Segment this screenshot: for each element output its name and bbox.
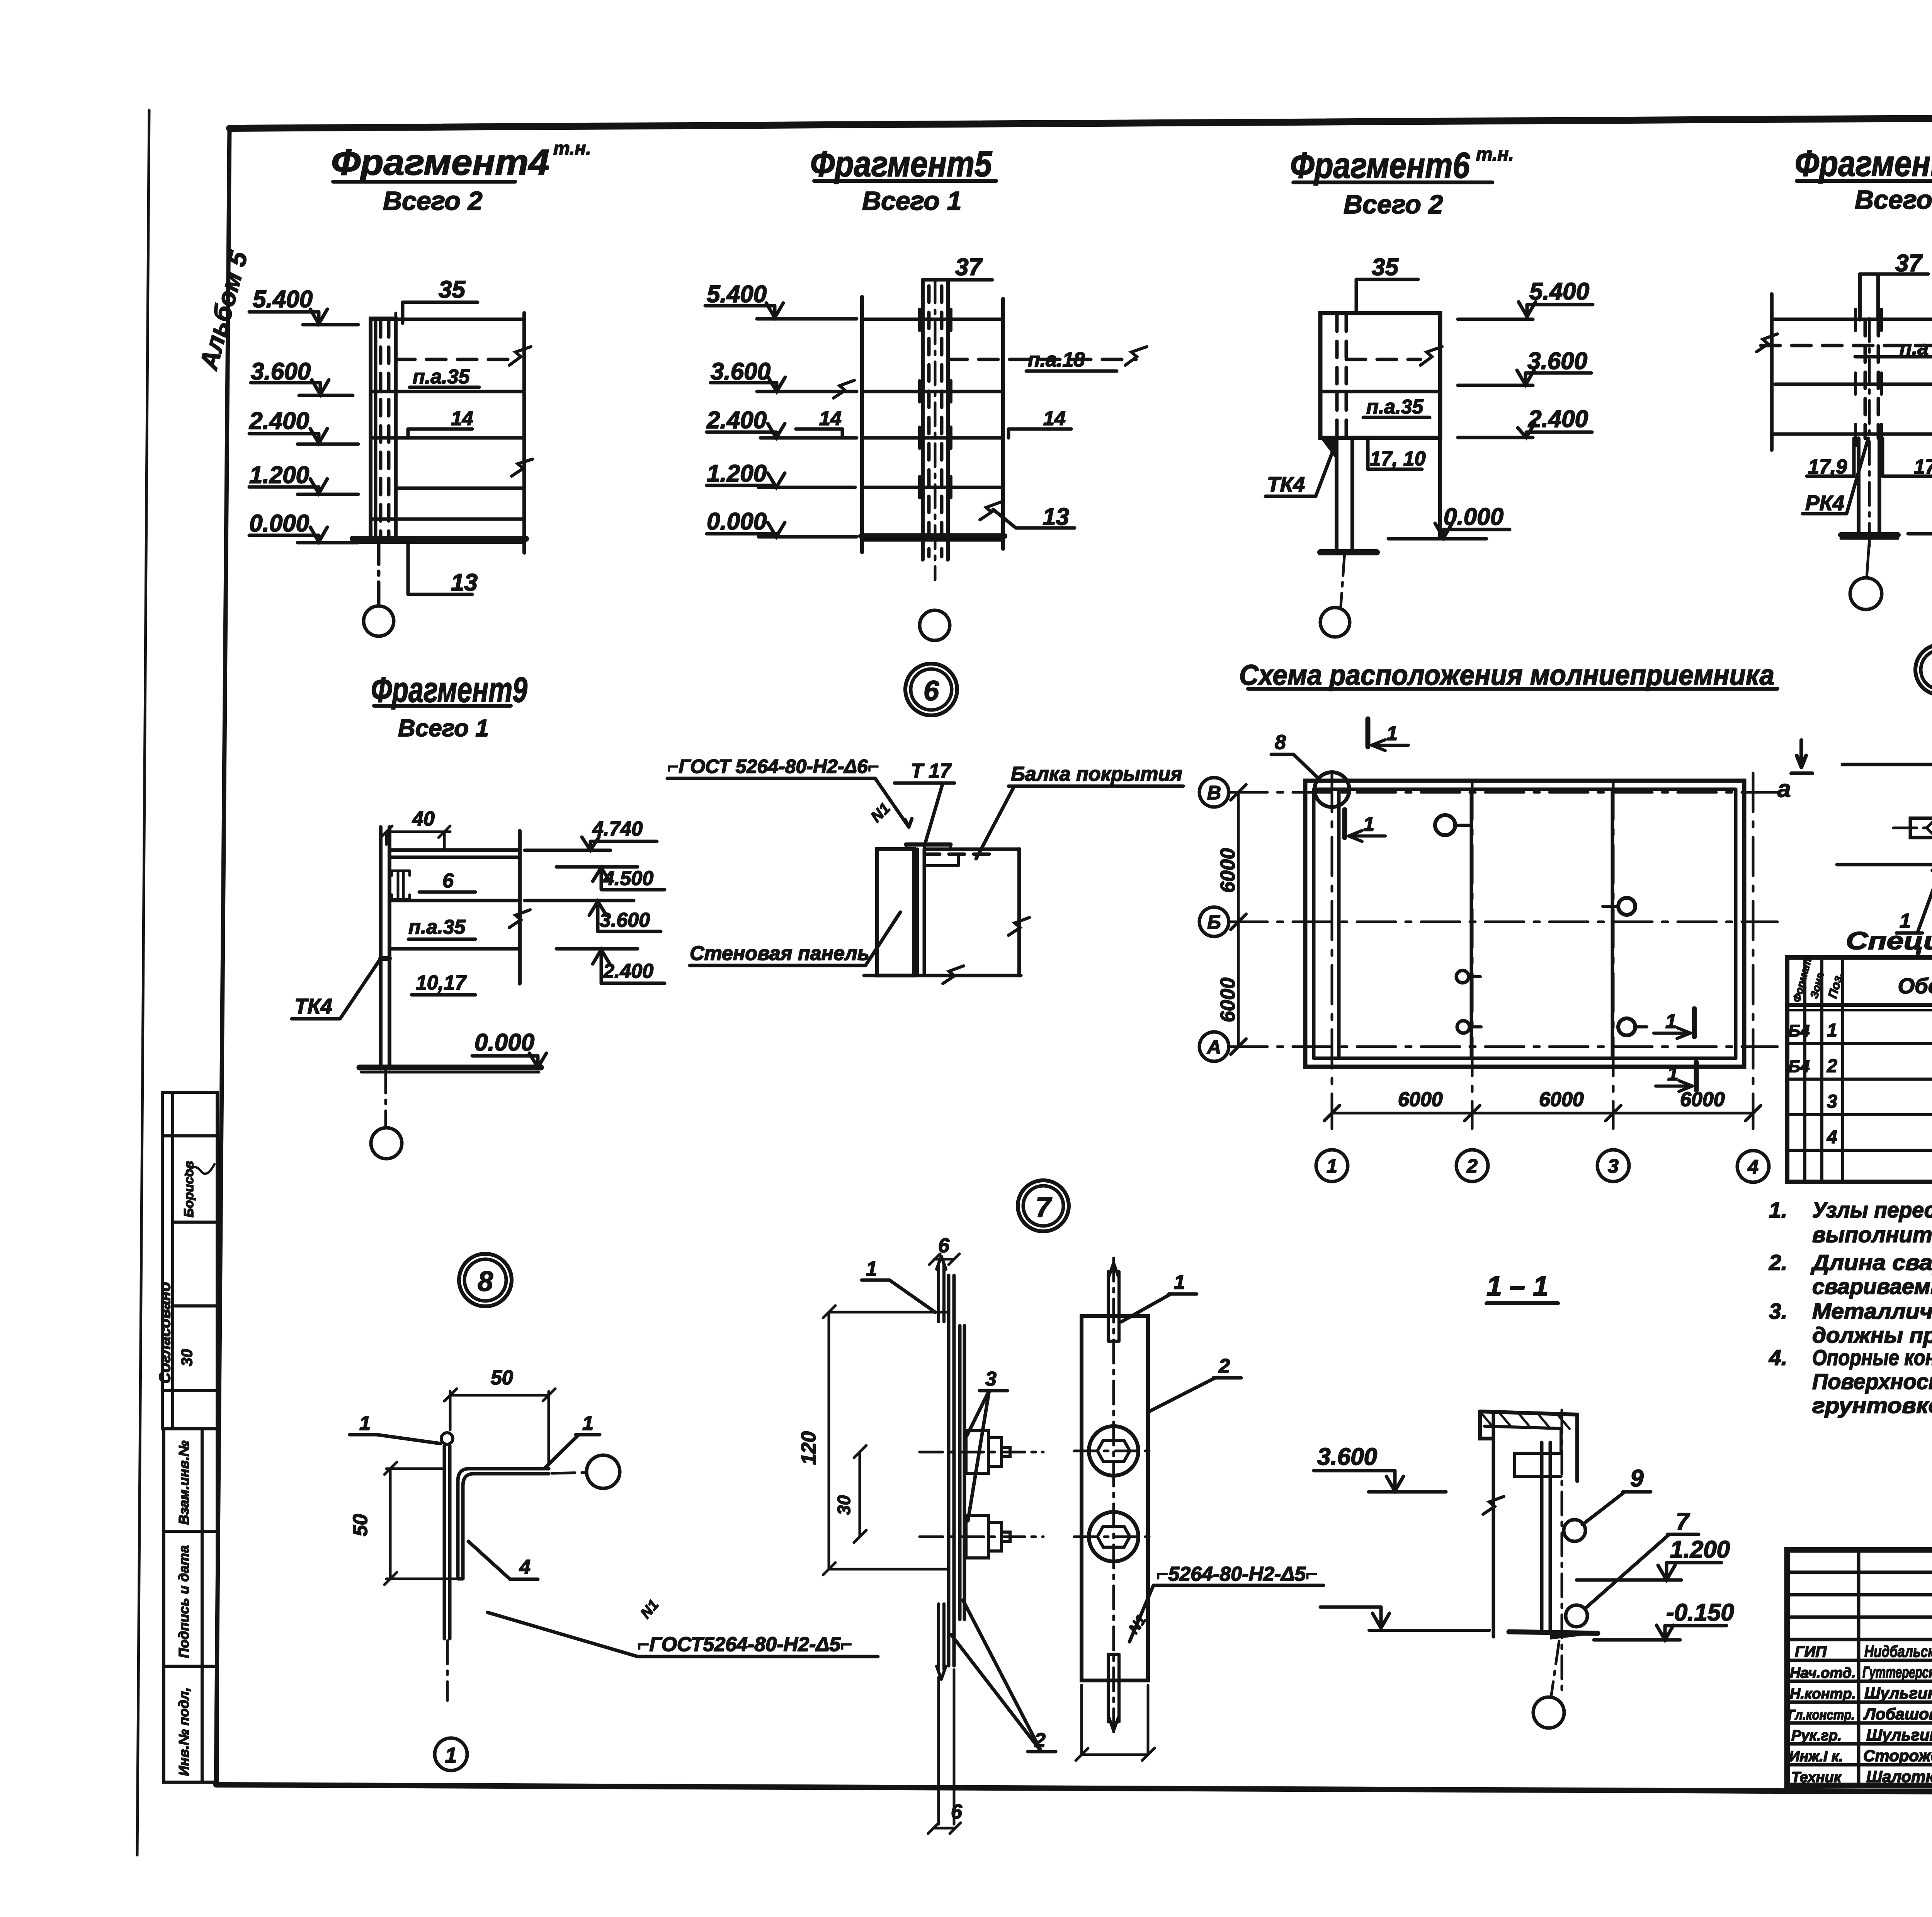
svg-text:РК4: РК4 [1805, 491, 1844, 515]
svg-text:6000: 6000 [1217, 848, 1239, 893]
svg-text:35: 35 [1372, 254, 1399, 281]
svg-text:4.500: 4.500 [603, 867, 653, 890]
svg-text:35: 35 [439, 276, 466, 303]
svg-text:Подпись и дата: Подпись и дата [176, 1545, 192, 1658]
svg-text:1: 1 [1363, 813, 1374, 836]
svg-text:⌐5264-80-Н2-Δ5⌐: ⌐5264-80-Н2-Δ5⌐ [1156, 1563, 1318, 1585]
svg-text:4: 4 [1827, 1127, 1837, 1147]
svg-text:14: 14 [819, 407, 842, 430]
svg-text:Н.контр.: Н.контр. [1790, 1686, 1856, 1702]
svg-text:4: 4 [519, 1556, 531, 1578]
svg-text:1: 1 [1327, 1155, 1337, 1177]
svg-text:6000: 6000 [1398, 1088, 1443, 1111]
svg-text:т.н.: т.н. [1476, 144, 1514, 165]
svg-text:1.200: 1.200 [249, 462, 309, 489]
svg-text:8: 8 [478, 1266, 493, 1297]
svg-text:30: 30 [179, 1349, 196, 1367]
svg-text:1: 1 [1665, 1010, 1677, 1033]
svg-text:30: 30 [834, 1495, 854, 1515]
svg-text:Стеновая панель: Стеновая панель [690, 942, 869, 965]
svg-text:17, 10: 17, 10 [1370, 448, 1426, 470]
svg-text:3.: 3. [1769, 1299, 1787, 1324]
svg-text:3.600: 3.600 [1527, 348, 1587, 375]
svg-text:6: 6 [923, 676, 939, 707]
svg-text:п.а.35: п.а.35 [408, 916, 466, 938]
svg-text:1: 1 [866, 1258, 877, 1280]
svg-text:6000: 6000 [1217, 977, 1239, 1022]
svg-text:2: 2 [1466, 1155, 1478, 1177]
svg-text:Шульгино: Шульгино [1866, 1726, 1932, 1744]
svg-text:2: 2 [1218, 1355, 1230, 1377]
svg-text:2.400: 2.400 [1528, 406, 1588, 432]
svg-text:Фрагмент9: Фрагмент9 [371, 670, 527, 710]
svg-text:должны присоединяться к молни: должны присоединяться к молниеприемчой с… [1812, 1323, 1932, 1348]
svg-text:ТК4: ТК4 [1267, 472, 1305, 496]
svg-text:1: 1 [1174, 1271, 1185, 1294]
svg-text:6: 6 [442, 870, 454, 892]
svg-text:Б: Б [1207, 911, 1221, 933]
svg-text:свариваемых круглых проводни: свариваемых круглых проводников [1812, 1274, 1932, 1299]
svg-text:Фрагмент6: Фрагмент6 [1290, 145, 1470, 186]
svg-text:10,17: 10,17 [416, 972, 467, 994]
svg-text:13: 13 [451, 569, 478, 596]
svg-text:Согласовано: Согласовано [156, 1282, 173, 1384]
svg-text:120: 120 [798, 1431, 820, 1465]
svg-text:Техник: Техник [1791, 1769, 1842, 1786]
svg-text:Рук.гр.: Рук.гр. [1791, 1728, 1842, 1744]
svg-text:3.600: 3.600 [600, 909, 650, 931]
svg-text:Металлические элементы здания: Металлические элементы здания, расположе… [1812, 1299, 1932, 1324]
svg-text:14: 14 [1043, 407, 1066, 430]
svg-text:14: 14 [451, 407, 473, 430]
svg-text:В: В [1207, 782, 1221, 804]
svg-text:1: 1 [582, 1412, 594, 1435]
svg-text:п.а.35: п.а.35 [1366, 396, 1423, 418]
svg-text:Поверхности остальных закладн: Поверхности остальных закладных элементо… [1812, 1369, 1932, 1394]
svg-text:0.000: 0.000 [249, 510, 309, 537]
svg-text:Инж.I к.: Инж.I к. [1789, 1748, 1843, 1765]
svg-text:1: 1 [445, 1743, 457, 1767]
svg-text:Взам.инв.№: Взам.инв.№ [176, 1440, 192, 1525]
svg-text:2: 2 [1827, 1056, 1837, 1076]
svg-text:Всего 2: Всего 2 [1344, 190, 1443, 219]
svg-text:Всего 1: Всего 1 [862, 186, 962, 216]
svg-text:2.400: 2.400 [249, 408, 309, 434]
svg-text:грунтовкой ГФ-020 красна-корич: грунтовкой ГФ-020 красна-коричневой ТУ6-… [1812, 1393, 1932, 1418]
svg-text:6000: 6000 [1680, 1088, 1725, 1111]
svg-text:Гл.констр.: Гл.констр. [1788, 1707, 1855, 1723]
svg-text:0.000: 0.000 [1444, 504, 1503, 530]
svg-text:ТК4: ТК4 [294, 994, 332, 1018]
svg-text:Шульгина: Шульгина [1864, 1684, 1932, 1702]
svg-text:1.200: 1.200 [1670, 1536, 1730, 1563]
svg-text:Гуттерерский: Гуттерерский [1862, 1663, 1932, 1681]
svg-text:1.: 1. [1769, 1198, 1787, 1222]
svg-text:т.н.: т.н. [553, 138, 591, 159]
svg-text:9: 9 [1630, 1465, 1644, 1492]
svg-text:Обозначение: Обозначение [1898, 974, 1932, 998]
svg-text:2.: 2. [1769, 1250, 1787, 1275]
svg-text:50: 50 [491, 1367, 513, 1389]
svg-text:1 – 1: 1 – 1 [1486, 1271, 1548, 1302]
svg-text:Опорные консоли цинкуются слое: Опорные консоли цинкуются слоем 160мкм в… [1812, 1345, 1932, 1370]
svg-text:Лобашов: Лобашов [1863, 1705, 1932, 1723]
svg-text:Фрагмент 7: Фрагмент 7 [1795, 143, 1932, 184]
svg-text:выполнить сваркой электродами: выполнить сваркой электродами типа Э42 п… [1812, 1222, 1932, 1247]
svg-text:7: 7 [1036, 1192, 1052, 1223]
svg-text:а: а [1777, 776, 1791, 802]
svg-text:Т 17: Т 17 [911, 760, 952, 782]
svg-text:3: 3 [1608, 1155, 1619, 1177]
svg-text:п.а.35: п.а.35 [413, 366, 470, 388]
svg-text:3.600: 3.600 [1317, 1444, 1377, 1470]
svg-text:Инв.№ подл,: Инв.№ подл, [176, 1687, 192, 1776]
svg-text:4.: 4. [1769, 1345, 1787, 1370]
svg-text:⌐ГОСТ5264-80-Н2-Δ5⌐: ⌐ГОСТ5264-80-Н2-Δ5⌐ [638, 1633, 852, 1656]
svg-text:0.000: 0.000 [474, 1029, 534, 1056]
svg-text:Фрагмент5: Фрагмент5 [810, 143, 992, 184]
svg-text:50: 50 [349, 1514, 372, 1536]
svg-text:8: 8 [1275, 731, 1286, 754]
svg-text:1: 1 [1827, 1020, 1837, 1041]
svg-text:Всего 1: Всего 1 [1855, 185, 1932, 215]
svg-text:0.000: 0.000 [707, 508, 767, 535]
svg-text:5.400: 5.400 [707, 281, 767, 308]
svg-text:37: 37 [955, 254, 983, 281]
svg-text:1: 1 [1386, 722, 1398, 745]
svg-text:7: 7 [1676, 1508, 1690, 1535]
svg-text:6000: 6000 [1539, 1088, 1584, 1111]
svg-text:Б4: Б4 [1788, 1021, 1810, 1040]
svg-text:Всего 2: Всего 2 [383, 186, 483, 216]
svg-text:Нидбальский: Нидбальский [1864, 1642, 1932, 1660]
svg-text:3: 3 [985, 1368, 997, 1390]
svg-text:Узлы пересечений и все соедин: Узлы пересечений и все соединения молние… [1812, 1198, 1932, 1222]
svg-text:3: 3 [1827, 1091, 1837, 1112]
svg-text:ГИП: ГИП [1795, 1643, 1827, 1660]
svg-text:-0.150: -0.150 [1666, 1599, 1734, 1626]
svg-text:1: 1 [359, 1412, 371, 1435]
svg-text:Шалотюк: Шалотюк [1866, 1767, 1932, 1786]
svg-text:Всего 1: Всего 1 [398, 715, 489, 742]
svg-text:Балка покрытия: Балка покрытия [1011, 763, 1182, 785]
svg-text:Фрагмент4: Фрагмент4 [331, 142, 549, 182]
svg-text:5.400: 5.400 [253, 286, 313, 313]
svg-text:Нач.отд.: Нач.отд. [1790, 1665, 1855, 1681]
svg-text:40: 40 [412, 808, 435, 830]
svg-text:5.400: 5.400 [1529, 278, 1589, 305]
svg-text:А: А [1206, 1036, 1221, 1058]
svg-text:⌐ГОСТ 5264-80-Н2-Δ6⌐: ⌐ГОСТ 5264-80-Н2-Δ6⌐ [667, 756, 879, 777]
svg-text:4: 4 [1747, 1156, 1759, 1178]
svg-text:Б4: Б4 [1788, 1057, 1810, 1076]
svg-text:Длина сварных швов должна бы: Длина сварных швов должна быть не менее … [1810, 1250, 1932, 1275]
svg-text:Спецификация металла на мол: Спецификация металла на молниеприемник [1846, 927, 1932, 955]
svg-text:1.200: 1.200 [707, 460, 767, 487]
svg-text:2.400: 2.400 [706, 407, 767, 434]
svg-text:Схема расположения молниеприе: Схема расположения молниеприемника [1239, 659, 1774, 691]
svg-text:Сторожева: Сторожева [1863, 1747, 1932, 1765]
